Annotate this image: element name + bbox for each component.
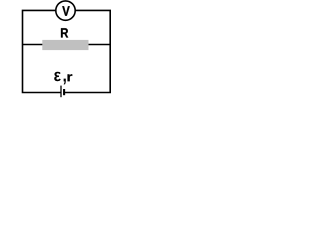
battery cell : long thin electrode — [60, 86, 62, 98]
resistor R : gray box — [42, 40, 88, 50]
wire : middle branch through resistor — [23, 44, 111, 46]
battery cell : short thick electrode — [63, 89, 65, 95]
label comma — [64, 79, 66, 85]
voltmeter : circle — [56, 1, 75, 20]
wire : outer circuit loop (left, top, right sides and bottom with battery gap) — [23, 10, 111, 92]
label R — [61, 28, 68, 37]
label r (internal resistance) — [68, 74, 73, 81]
label epsilon (EMF) — [54, 72, 61, 81]
label V (voltmeter) — [62, 6, 69, 15]
